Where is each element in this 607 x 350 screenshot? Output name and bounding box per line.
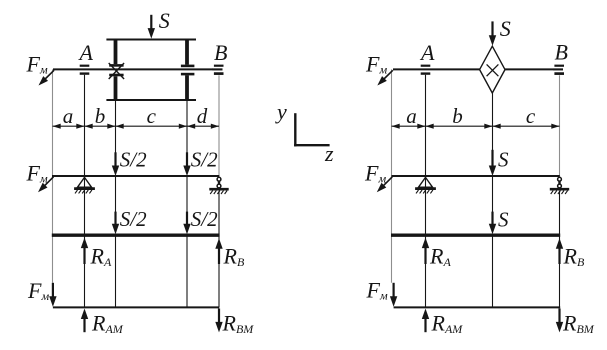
right: bottom moment line bbox=[394, 306, 561, 308]
svg-text:d: d bbox=[197, 104, 208, 128]
left: pendulum support at B bbox=[217, 177, 221, 181]
right: dimension line bbox=[392, 125, 560, 127]
svg-text:a: a bbox=[406, 104, 417, 128]
left: projection line at bearing B bbox=[218, 75, 220, 176]
svg-text:S: S bbox=[159, 8, 170, 33]
left: beam in vertical plane bbox=[52, 175, 219, 177]
svg-text:S/2: S/2 bbox=[120, 207, 147, 231]
svg-text:S: S bbox=[500, 16, 511, 41]
svg-text:b: b bbox=[95, 104, 106, 128]
svg-text:z: z bbox=[324, 141, 334, 166]
left: load arrow S/2 lower first bbox=[114, 212, 116, 227]
right: shaft axis line right part bbox=[505, 68, 553, 70]
left: load arrow S/2 lower second bbox=[186, 212, 188, 227]
left: dimension line bbox=[53, 125, 220, 127]
axes y-z corner bbox=[294, 113, 296, 146]
left: reaction arrow RAM bbox=[83, 317, 85, 333]
left: pulley rim top line bbox=[106, 39, 196, 41]
left: reaction arrow RB bbox=[218, 246, 220, 264]
svg-text:S/2: S/2 bbox=[191, 148, 218, 172]
right: reaction arrow RBM bbox=[558, 309, 560, 325]
svg-text:B: B bbox=[214, 40, 227, 65]
right: cross mark in gear bbox=[487, 64, 499, 76]
right: bearing A symbol bbox=[421, 65, 431, 67]
left: projection line at pulley left plane bbox=[115, 100, 117, 154]
right: dimension arrows a bbox=[392, 124, 400, 129]
right: projection line at bearing B bbox=[559, 75, 561, 176]
left: reaction arrow RBM bbox=[218, 309, 220, 325]
left: resultant beam thick bbox=[52, 233, 220, 236]
svg-text:S/2: S/2 bbox=[120, 148, 147, 172]
right: projection line at gear plane bbox=[492, 93, 494, 152]
left: cross mark at force plane bbox=[109, 63, 124, 79]
right: reaction arrow RA bbox=[424, 246, 426, 264]
left: reaction arrow RA bbox=[83, 246, 85, 264]
left: shaft axis line bbox=[53, 68, 213, 70]
left: dimension arrows c bbox=[116, 124, 124, 129]
svg-text:A: A bbox=[419, 40, 435, 65]
left: pin support at A bbox=[78, 177, 92, 187]
left: dimension arrows d bbox=[187, 124, 195, 129]
left: load arrow S/2 first at plane 2 bbox=[186, 152, 188, 168]
right: reaction arrow RAM bbox=[424, 317, 426, 333]
right: load arrow S lower bbox=[491, 212, 493, 227]
right: bearing B symbol bbox=[554, 65, 564, 67]
left: dimension arrows b bbox=[85, 124, 93, 129]
svg-text:A: A bbox=[78, 40, 94, 65]
svg-text:S/2: S/2 bbox=[191, 207, 218, 231]
svg-text:b: b bbox=[452, 104, 463, 128]
svg-text:S: S bbox=[498, 148, 509, 172]
left: projection line from shaft left end bbox=[52, 69, 54, 282]
left: force arrow S on pulley bbox=[150, 15, 152, 31]
right: resultant beam thick bbox=[391, 233, 560, 236]
svg-text:c: c bbox=[526, 104, 536, 128]
svg-text:y: y bbox=[275, 99, 287, 124]
left: projection line at pulley right plane bbox=[186, 100, 188, 154]
left: bottom moment line bbox=[53, 306, 219, 308]
svg-text:B: B bbox=[555, 40, 568, 65]
left: projection line at bearing A bbox=[84, 75, 86, 308]
left: load arrow S/2 first at plane 1 bbox=[114, 152, 116, 168]
left: pulley rim bottom line bbox=[106, 99, 196, 101]
right: dimension arrows b bbox=[426, 124, 434, 129]
svg-text:S: S bbox=[498, 208, 509, 232]
right: shaft axis line left part bbox=[393, 68, 480, 70]
right: load arrow S upper bbox=[491, 150, 493, 168]
left: pulley left disc bbox=[114, 40, 118, 65]
svg-text:a: a bbox=[63, 104, 74, 128]
left: bearing B symbol bbox=[214, 65, 224, 67]
left: dimension arrows a bbox=[53, 124, 61, 129]
left: pulley right disc bbox=[185, 40, 189, 65]
right: bevel gear rhombus bbox=[480, 46, 505, 93]
right: projection line at bearing A bbox=[425, 75, 427, 308]
left: bearing A symbol bbox=[80, 65, 90, 67]
right: dimension arrows c bbox=[493, 124, 501, 129]
right: force arrow S top bbox=[491, 21, 493, 37]
right: projection line from shaft left end bbox=[391, 69, 393, 282]
right: reaction arrow RB bbox=[558, 246, 560, 264]
right: pin support at A bbox=[419, 177, 433, 187]
right: beam in vertical plane bbox=[392, 175, 560, 177]
right: pendulum support at B bbox=[558, 177, 562, 181]
svg-text:c: c bbox=[147, 104, 157, 128]
